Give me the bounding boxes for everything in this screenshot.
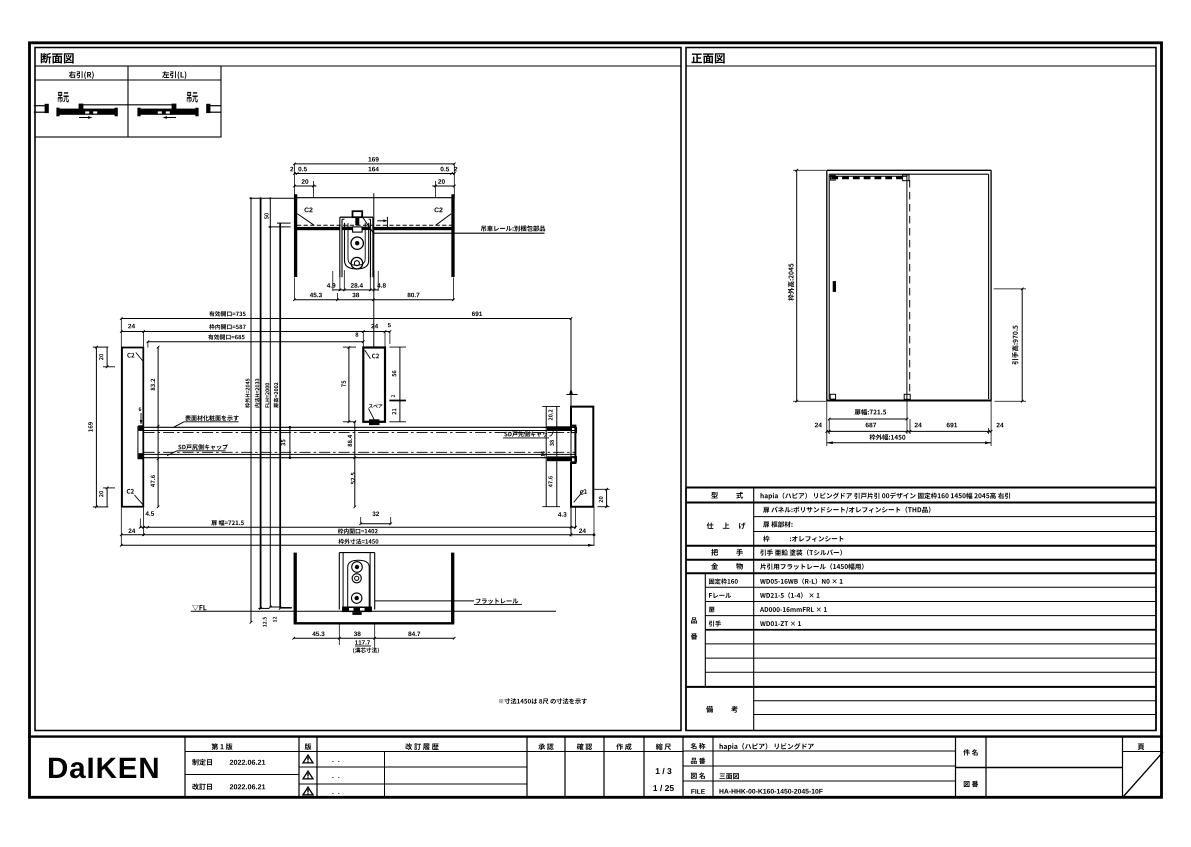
dim 169 row: [293, 157, 456, 165]
spec row kanamono: [711, 563, 863, 570]
rev triangle 1: [303, 755, 339, 763]
left jamb pocket: [138, 425, 144, 459]
label 12.5 lower: [263, 617, 267, 627]
title shomenzu: [692, 53, 725, 63]
center post bottom cap: [369, 419, 380, 425]
kakunin header: [577, 743, 592, 750]
rail base plate: [342, 607, 372, 615]
height tick bottoms: [258, 607, 292, 608]
label 7 lower: [273, 617, 277, 622]
head top line: [294, 197, 455, 199]
right jamb dims: [541, 407, 560, 507]
rail leader text: [481, 225, 545, 231]
header migibiki(R): [69, 71, 94, 79]
door panel bottom edges: [144, 454, 576, 457]
height dim line A: [250, 197, 253, 623]
page diagonal: [1123, 752, 1164, 798]
kenmei label: [963, 749, 977, 755]
rail screw top: [352, 562, 363, 573]
center post spacer text: [369, 404, 383, 420]
dim row yuko685: [147, 333, 365, 343]
rail screw bottom: [352, 593, 362, 603]
head left stile: [294, 194, 297, 277]
ext lines top detail: [294, 164, 454, 198]
hanger adjust arrow: [377, 217, 388, 230]
left jamb C2 top: [127, 353, 143, 361]
cell R rail line: [79, 104, 128, 110]
elev handle: [833, 281, 836, 292]
ceiling line ext: [249, 197, 295, 199]
edition cell: [211, 743, 232, 750]
elev frame right: [989, 170, 992, 401]
head soffit dashed: [297, 224, 452, 226]
dim 20 right: [432, 179, 455, 197]
flat rail leader: [375, 598, 522, 604]
note shaku: [499, 698, 587, 704]
dim 4.3: [558, 512, 577, 528]
elev frame top: [827, 170, 991, 174]
elev guide block mid: [904, 394, 910, 399]
sill right stile: [451, 553, 454, 624]
dim 20 right jamb: [593, 488, 609, 508]
dim 56 21 vertical right of post: [389, 347, 406, 422]
chamfer C2 right: [434, 207, 451, 225]
hinban label: [691, 758, 706, 764]
elev guide block left: [830, 394, 835, 399]
spec table grid: [686, 488, 1156, 731]
meisho label: [691, 743, 706, 749]
note surface leader: [174, 415, 239, 427]
elev dim tobirahaba: [828, 409, 908, 420]
cell L slide arrow: [163, 116, 177, 119]
elev frame left: [827, 170, 829, 401]
drawing panel left (dammenzu) box: [35, 48, 681, 731]
long vertical 691 ext: [570, 319, 572, 537]
dim 88.4 52.5 vertical: [348, 421, 356, 509]
height dim line C: [269, 197, 272, 608]
height dim line D: [279, 223, 282, 610]
dim 164 row: [290, 167, 457, 175]
cell R hinge-side mark: [58, 92, 69, 103]
note cap right: [503, 431, 554, 438]
sakusei header: [616, 743, 631, 750]
dim 35 door thickness: [281, 426, 291, 459]
height tick upper: [269, 223, 291, 227]
left jamb C2 bottom: [127, 489, 143, 505]
label tobira H2002: [274, 383, 279, 408]
elev ext below: [827, 401, 991, 446]
rail leader line: [362, 216, 545, 234]
cell R door panel: [56, 108, 117, 117]
rev triangle 3: [303, 787, 339, 795]
drawing panel right (shomenzu) box: [686, 48, 1156, 731]
dim 4.9 28.4 4.8 row: [327, 283, 386, 291]
left panel title row line: [35, 65, 681, 67]
han header: [305, 743, 312, 750]
ext verticals top dims: [121, 319, 390, 547]
FL line: [191, 610, 556, 612]
dim wakugai 1450: [120, 539, 594, 547]
top detail ext bottom: [333, 270, 378, 291]
dim 169 vertical: [88, 346, 108, 508]
cell L wall right: [206, 104, 221, 113]
ext verticals bottom dims: [144, 507, 594, 546]
sill left stile: [294, 553, 297, 624]
cell R wall left: [34, 104, 49, 113]
dim 20 top vertical: [99, 347, 115, 368]
dim 32 post: [359, 512, 392, 525]
elev dim hikitedaka 970.5: [994, 288, 1026, 403]
hanger pin block: [353, 211, 363, 232]
label FL H2000: [265, 383, 269, 408]
dim wakunai 1402: [120, 528, 595, 536]
dim 117.7: [353, 640, 379, 653]
dim 4.5: [140, 511, 154, 528]
scale 1/3: [656, 768, 672, 774]
spec row katashiki: [711, 492, 1010, 500]
elev dim widths row: [815, 423, 1004, 433]
left jamb outline: [122, 348, 143, 507]
elev door top edge: [829, 175, 907, 177]
spec bikou label: [706, 706, 738, 713]
shukushaku header: [656, 743, 671, 750]
elev dim wakugaidaka 2045: [788, 169, 827, 403]
dim 45.3 38 80.7 row: [293, 278, 455, 302]
shonin header: [538, 744, 553, 750]
kaitei date: [192, 783, 265, 790]
hanger outer walls: [340, 217, 373, 277]
door panel centerline 2: [144, 451, 576, 453]
DAIKEN logo: [49, 758, 158, 779]
head right stile: [451, 194, 454, 277]
page header: [1138, 744, 1145, 750]
hanger rail section band: [297, 227, 452, 231]
label uchinori H2033: [255, 379, 260, 408]
zumei label: [691, 772, 705, 778]
label wakugai H2045: [245, 379, 250, 408]
elev door edge dashed: [909, 180, 911, 395]
header hidaribiki(L): [162, 71, 186, 79]
dim 20 left: [293, 179, 316, 197]
sill base line: [294, 622, 455, 624]
meisho value: [720, 743, 814, 750]
gap arrow at jamb: [139, 407, 143, 424]
FL mark: [192, 605, 206, 611]
plan table box: [35, 66, 221, 137]
height dim line B: [259, 197, 262, 610]
cell L hinge-side mark: [187, 92, 198, 103]
right jamb C2: [574, 489, 588, 502]
elev floor line: [827, 399, 991, 401]
zuban label: [964, 781, 979, 787]
hanger bolt upper: [351, 237, 363, 249]
dim tobirahaba 721.5: [139, 520, 577, 529]
dim 83.2 47.6 vertical: [151, 346, 160, 508]
chamfer C2 left: [297, 207, 314, 225]
cell L rail line: [127, 104, 176, 110]
door end caps right: [547, 426, 572, 461]
center post C2: [365, 350, 379, 358]
elev hanger block right: [903, 175, 909, 181]
slide arrow on 691 ext: [567, 388, 578, 395]
dim row wakunai587: [120, 323, 391, 333]
seitei date: [192, 759, 265, 766]
rail screw mid: [352, 574, 361, 583]
hanger roller capsule: [345, 223, 369, 269]
elev hanger block left: [831, 175, 836, 180]
hanger bolt lower: [351, 257, 363, 269]
elev hanger rail dashed: [831, 176, 904, 179]
rev triangle 2: [303, 771, 339, 779]
spec row shiage: [707, 506, 931, 541]
right panel title row line: [686, 65, 1156, 67]
rail box: [339, 553, 374, 610]
cell L door panel: [137, 108, 198, 117]
file label: [691, 789, 705, 794]
door centerline upper: [373, 193, 375, 348]
file value: [719, 789, 822, 794]
spec hinban rows: [709, 578, 843, 626]
elev dim wakugai 1450: [827, 434, 991, 444]
note cap leader: [167, 444, 228, 455]
cell R slide arrow: [79, 116, 93, 119]
right jamb pocket detail: [572, 426, 577, 462]
rail capsule: [348, 560, 370, 606]
title dammenzu: [41, 53, 74, 64]
spec hinban label: [691, 617, 698, 639]
elev door edge solid: [906, 174, 908, 399]
zumei value: [719, 773, 738, 779]
spec row totte: [711, 549, 842, 556]
dim 50 label: [264, 213, 268, 219]
door panel centerline 1: [144, 431, 576, 433]
dim 20 bottom vertical: [99, 487, 115, 507]
center post outline: [363, 348, 385, 422]
sill dim row: [292, 623, 455, 651]
scale 1/25: [653, 785, 673, 791]
door panel top edges: [144, 427, 576, 430]
dim 75 vertical: [342, 346, 364, 423]
kaitei rireki header: [406, 743, 439, 750]
dim row yuko735+691: [120, 311, 572, 320]
right jamb outline: [571, 407, 593, 507]
title block grid: [28, 737, 1163, 798]
